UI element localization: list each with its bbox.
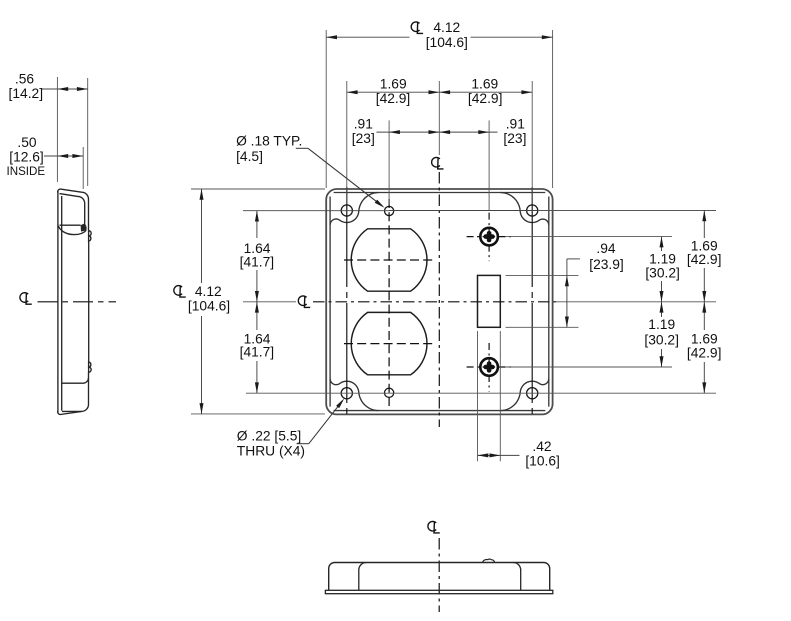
svg-text:[23]: [23]	[352, 131, 375, 146]
svg-text:[23]: [23]	[503, 131, 526, 146]
svg-text:[42.9]: [42.9]	[468, 91, 503, 106]
svg-text:[104.6]: [104.6]	[426, 35, 468, 50]
svg-text:.91: .91	[354, 117, 373, 132]
svg-text:[42.9]: [42.9]	[687, 346, 722, 361]
svg-text:.56: .56	[15, 72, 35, 87]
svg-text:[14.2]: [14.2]	[9, 86, 44, 101]
svg-text:[42.9]: [42.9]	[687, 252, 722, 267]
svg-text:1.69: 1.69	[471, 77, 498, 92]
svg-text:.91: .91	[506, 117, 525, 132]
svg-text:[12.6]: [12.6]	[9, 149, 44, 164]
svg-text:THRU (X4): THRU (X4)	[237, 443, 305, 458]
svg-text:1.19: 1.19	[648, 317, 675, 332]
svg-text:[42.9]: [42.9]	[376, 91, 411, 106]
svg-text:[41.7]: [41.7]	[240, 345, 275, 360]
svg-text:1.69: 1.69	[691, 332, 718, 347]
svg-text:[104.6]: [104.6]	[188, 299, 230, 314]
svg-text:Ø .22 [5.5]: Ø .22 [5.5]	[237, 429, 301, 444]
svg-text:[30.2]: [30.2]	[644, 333, 679, 348]
svg-text:[4.5]: [4.5]	[236, 149, 263, 164]
svg-text:[41.7]: [41.7]	[240, 254, 275, 269]
svg-text:[10.6]: [10.6]	[525, 453, 560, 468]
svg-text:.42: .42	[532, 439, 551, 454]
svg-text:4.12: 4.12	[195, 284, 222, 299]
svg-text:Ø .18 TYP.: Ø .18 TYP.	[236, 133, 302, 148]
svg-text:1.69: 1.69	[380, 77, 407, 92]
svg-text:.94: .94	[596, 241, 616, 256]
svg-text:[23.9]: [23.9]	[589, 257, 624, 272]
svg-text:[30.2]: [30.2]	[645, 266, 680, 281]
svg-text:4.12: 4.12	[433, 20, 460, 35]
svg-text:INSIDE: INSIDE	[6, 165, 45, 178]
svg-text:.50: .50	[17, 135, 37, 150]
svg-text:1.19: 1.19	[649, 251, 676, 266]
